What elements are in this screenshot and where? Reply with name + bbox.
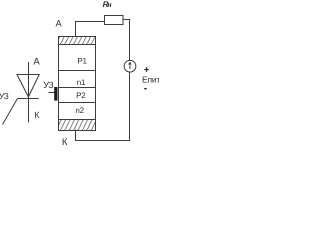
svg-text:УЗ: УЗ (0, 91, 9, 101)
junction line n1/P2 (59, 87, 96, 89)
structure outer box (59, 37, 96, 131)
svg-text:n2: n2 (75, 106, 84, 115)
wire: cathode plate drop (75, 130, 77, 142)
resistor Rн box (105, 16, 124, 25)
svg-text:Епит: Епит (142, 74, 159, 84)
anode electrode plate (hatched) (59, 37, 95, 45)
wire: top horizontal to resistor (75, 21, 105, 23)
cathode electrode plate (hatched) (59, 119, 96, 121)
EMF source circle (124, 60, 136, 72)
gate electrode (black) (54, 87, 57, 101)
svg-text:P1: P1 (77, 56, 87, 65)
EMF arrow (129, 64, 131, 69)
thyristor cathode lead (28, 99, 30, 123)
gate stub wire (49, 92, 55, 94)
wire: right rail lower (129, 72, 131, 141)
svg-text:УЗ: УЗ (43, 80, 53, 90)
svg-text:P2: P2 (76, 91, 86, 100)
label minus (144, 88, 147, 89)
thyristor gate lead (diagonal) (3, 99, 18, 125)
svg-text:А: А (56, 18, 63, 29)
wire: anode plate riser (75, 21, 77, 37)
junction line P1/n1 (59, 70, 96, 72)
svg-text:К: К (62, 137, 68, 148)
wire: resistor to right rail (123, 19, 130, 21)
thyristor VS: anode lead (28, 62, 30, 99)
label + (144, 67, 148, 71)
junction line P2/n2 (59, 102, 96, 104)
wire: right rail upper (129, 19, 131, 60)
svg-text:n1: n1 (77, 78, 86, 87)
thyristor cathode bar (18, 98, 39, 100)
thyristor triangle (17, 75, 39, 97)
svg-text:К: К (34, 110, 40, 120)
svg-text:А: А (33, 57, 40, 68)
wire: bottom horizontal (75, 140, 130, 142)
